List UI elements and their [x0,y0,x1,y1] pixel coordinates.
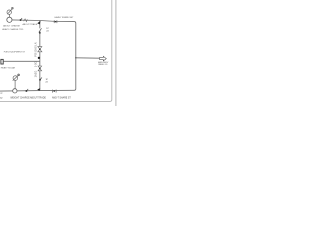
wire (branch to arrow) [76,57,100,59]
node (top tee junction) [37,21,40,25]
arrow (to main service panel) [100,56,107,61]
svg-text:1A2G: 1A2G [34,71,38,78]
valve V2 (slash+dot on center riser) [39,28,42,34]
svg-text:PANEL FD: PANEL FD [98,63,108,66]
union fitting (tick on top wire) [24,19,28,22]
svg-text:AND-T SHARE ST: AND-T SHARE ST [52,97,71,100]
border rectangle (drawing frame, bottom-right corner) [0,0,112,101]
meter M1 (top-left) [7,17,12,22]
svg-text:A2: A2 [0,97,2,100]
node (tee to box branch) [38,57,40,59]
regulator R1 (top-left) [7,7,13,17]
svg-text:ABOUT CHARGE: ABOUT CHARGE [3,25,20,28]
union U1 (on bottom wire) [52,90,56,93]
valve V5 (dot+slash lower center riser) [39,77,42,80]
meter M2 (bottom-left) [13,89,17,93]
svg-text:FUEL EQUIPMENT ST: FUEL EQUIPMENT ST [4,51,26,53]
svg-text:ABOUT TRADE: ABOUT TRADE [23,23,38,26]
svg-text:HEAVY SPARE SET: HEAVY SPARE SET [55,16,75,19]
svg-text:WEIGHT CHARGE: WEIGHT CHARGE [10,97,30,100]
valve V1 (dot+slash on top wire) [20,18,23,21]
svg-text:PSI GAS LN: PSI GAS LN [34,42,38,57]
svg-text:1-5G: 1-5G [34,61,38,67]
regulator R2 (bottom-left) [13,74,20,89]
union U2 (on top wire) [54,20,57,23]
node (bottom junction of center riser) [37,88,40,91]
wire (center riser) [39,20,41,90]
valve V6 (dot+slash on bottom wire) [25,89,28,92]
valve V3 (bowtie on center riser) [38,47,42,52]
wire (branch to box) [4,60,40,62]
svg-text:ABOUT TRADE: ABOUT TRADE [30,97,46,100]
node (tee on right riser) [75,57,76,58]
page edge line [115,0,117,106]
wire (top run, right riser, bottom run) [0,20,76,91]
svg-text:HEAVY CHARGE TRD: HEAVY CHARGE TRD [2,28,24,31]
equipment box B1 [1,59,3,64]
valve V4 (bowtie on center riser) [38,66,42,71]
svg-text:HEAVY SOLAR: HEAVY SOLAR [1,66,16,69]
